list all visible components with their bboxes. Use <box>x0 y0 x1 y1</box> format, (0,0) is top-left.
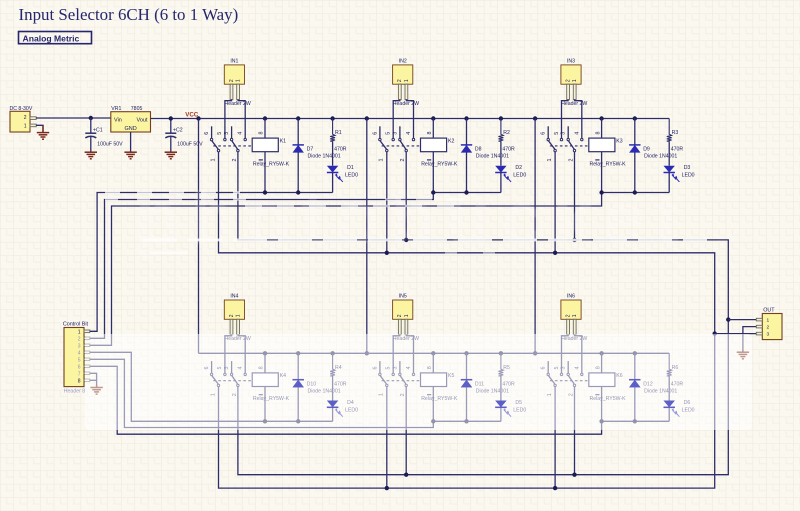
ground under C2 <box>165 151 177 159</box>
svg-text:IN6: IN6 <box>567 294 575 300</box>
wire IN3 pin1 to relay contact <box>562 99 569 138</box>
relay K2 linkage dashed line <box>382 145 421 147</box>
svg-text:2: 2 <box>397 79 403 82</box>
svg-text:Header 2W: Header 2W <box>225 101 251 107</box>
svg-text:GND: GND <box>124 126 136 132</box>
resistor R3 470R <box>667 119 684 153</box>
svg-text:2: 2 <box>397 314 403 317</box>
relay K6 coil Relay_RY5W-K <box>589 353 626 421</box>
svg-text:1: 1 <box>78 329 81 335</box>
capacitor C1 100uF 50V <box>85 118 123 152</box>
svg-text:DC 8-30V: DC 8-30V <box>10 106 33 112</box>
ground under C1 <box>85 151 97 159</box>
resistor R2 470R <box>499 119 516 153</box>
svg-text:2: 2 <box>400 159 406 162</box>
svg-text:Diode 1N4001: Diode 1N4001 <box>476 154 509 160</box>
svg-text:3: 3 <box>767 332 770 338</box>
diode D8 1N4001 <box>461 119 509 193</box>
connector OUT <box>756 308 782 340</box>
svg-text:Diode 1N4001: Diode 1N4001 <box>644 154 677 160</box>
svg-text:100uF 50V: 100uF 50V <box>177 141 203 147</box>
svg-text:1: 1 <box>767 318 770 324</box>
svg-text:5: 5 <box>386 132 392 135</box>
svg-text:3: 3 <box>392 132 398 135</box>
relay K3 contact pins 3-4-2 <box>561 126 583 161</box>
relay K5 linkage dashed line <box>382 380 421 382</box>
wire IN2 pin1 to relay contact <box>393 99 400 138</box>
title text <box>19 5 239 24</box>
svg-text:4: 4 <box>574 132 580 135</box>
svg-text:OUT: OUT <box>763 308 775 314</box>
svg-text:2: 2 <box>229 79 235 82</box>
svg-text:photobucket: photobucket <box>135 177 689 260</box>
svg-text:1: 1 <box>572 79 578 82</box>
svg-text:Control Bit: Control Bit <box>63 322 89 328</box>
svg-text:470R: 470R <box>334 147 347 153</box>
wire IN1 pin2 to relay contact <box>238 99 245 138</box>
wire VCC rail bottom row <box>199 351 670 355</box>
diode D7 1N4001 <box>293 119 341 193</box>
svg-text:IN3: IN3 <box>567 59 575 65</box>
svg-text:8: 8 <box>595 132 601 135</box>
svg-text:1: 1 <box>404 79 410 82</box>
Analog Metric logo box <box>19 32 92 44</box>
relay K5 contact pins 3-4-2 <box>392 361 414 396</box>
diode D10 1N4001 <box>293 353 341 421</box>
svg-text:+C1: +C1 <box>93 128 103 134</box>
svg-text:1: 1 <box>24 123 27 129</box>
svg-text:Relay_RY5W-K: Relay_RY5W-K <box>421 161 458 167</box>
wire DC- to ground <box>36 125 43 132</box>
connector IN3 Header 2W <box>561 59 588 108</box>
svg-text:Analog Metric: Analog Metric <box>23 33 80 43</box>
connector Control Bit Header 8 <box>63 322 90 395</box>
relay K5 contact pins 6-5-1 <box>372 361 394 396</box>
svg-text:3: 3 <box>224 132 230 135</box>
connector IN5 Header 2W <box>393 294 420 343</box>
svg-text:1: 1 <box>210 159 216 162</box>
svg-text:Header 8: Header 8 <box>64 389 85 395</box>
diodes and LEDs bottom row (washed tint) <box>293 380 675 408</box>
svg-text:Relay_RY5W-K: Relay_RY5W-K <box>253 161 290 167</box>
resistor R1 470R <box>330 119 347 153</box>
wire IN1 pin1 to relay contact <box>225 99 232 138</box>
svg-text:1: 1 <box>236 314 242 317</box>
wire control bit 1 to K1 coil rail <box>90 190 333 331</box>
LED D4 LED0 <box>327 376 358 421</box>
svg-text:1: 1 <box>379 159 385 162</box>
svg-text:2: 2 <box>229 314 235 317</box>
svg-text:R1: R1 <box>335 130 342 136</box>
wire control bit 3 to K3 coil rail <box>90 190 669 345</box>
svg-text:6: 6 <box>541 132 547 135</box>
relay K4 contact pins 3-4-2 <box>224 361 246 396</box>
relay K5 coil Relay_RY5W-K <box>421 353 458 421</box>
connector IN2 Header 2W <box>393 59 420 108</box>
svg-text:K3: K3 <box>616 138 622 144</box>
relay K3 linkage dashed line <box>550 145 589 147</box>
svg-text:IN2: IN2 <box>399 59 407 65</box>
svg-text:2: 2 <box>566 314 572 317</box>
svg-text:Diode 1N4001: Diode 1N4001 <box>308 154 341 160</box>
wire IN5 pin1 to relay contact <box>393 334 400 373</box>
svg-text:Input Selector 6CH (6 to 1 Way: Input Selector 6CH (6 to 1 Way) <box>19 5 239 24</box>
LED D3 LED0 <box>664 141 695 192</box>
svg-text:3: 3 <box>78 343 81 349</box>
svg-text:1: 1 <box>572 314 578 317</box>
relay K4 linkage dashed line <box>213 380 252 382</box>
wire VCC drop to bottom row (x3) <box>199 119 538 356</box>
svg-text:D7: D7 <box>307 147 314 153</box>
wire OUT pin2 to ground <box>743 327 756 352</box>
connector IN6 Header 2W <box>561 294 588 343</box>
svg-text:+C2: +C2 <box>173 128 183 134</box>
svg-text:2: 2 <box>566 79 572 82</box>
svg-text:D8: D8 <box>475 147 482 153</box>
capacitor C2 100uF 50V <box>165 118 203 152</box>
LED D2 LED0 <box>495 141 526 192</box>
relay K2 contact pins 3-4-2 <box>392 126 414 161</box>
wire DC+ to regulator input <box>36 116 111 120</box>
svg-text:470R: 470R <box>671 147 684 153</box>
relay K1 contact pins 6-5-1 <box>204 126 226 161</box>
diode D12 1N4001 <box>629 353 677 421</box>
wire control bit 2 to K2 coil rail <box>90 190 501 338</box>
svg-text:470R: 470R <box>502 147 515 153</box>
svg-text:Header 2W: Header 2W <box>561 101 587 107</box>
svg-text:8: 8 <box>427 132 433 135</box>
svg-text:4: 4 <box>238 132 244 135</box>
connector IN1 Header 2W <box>224 59 251 108</box>
svg-text:8: 8 <box>259 132 265 135</box>
resistor R5 470R <box>499 353 516 387</box>
power label VCC <box>185 111 199 118</box>
svg-text:VR1: VR1 <box>111 106 121 112</box>
svg-text:Vin: Vin <box>114 118 122 124</box>
wire IN4 pin1 to relay contact <box>225 334 232 373</box>
svg-text:IN5: IN5 <box>399 294 407 300</box>
svg-text:7805: 7805 <box>131 106 143 112</box>
svg-text:Header 2W: Header 2W <box>393 101 419 107</box>
relay K6 linkage dashed line <box>550 380 589 382</box>
svg-text:1: 1 <box>547 159 553 162</box>
relay K1 coil Relay_RY5W-K <box>252 119 289 193</box>
relay K4 coil Relay_RY5W-K <box>252 353 289 421</box>
wire VR1 GND pin <box>130 132 132 152</box>
relay K3 contact pins 6-5-1 <box>541 126 563 161</box>
relay K4 contact pins 6-5-1 <box>204 361 226 396</box>
svg-text:2: 2 <box>232 159 238 162</box>
svg-text:Relay_RY5W-K: Relay_RY5W-K <box>590 161 627 167</box>
relay K2 contact pins 6-5-1 <box>372 126 394 161</box>
svg-text:Vout: Vout <box>136 118 147 124</box>
ground at DC input <box>37 125 49 139</box>
wire control bit 6 to K6 coil rail <box>90 366 669 434</box>
svg-text:100uF 50V: 100uF 50V <box>97 141 123 147</box>
svg-text:K1: K1 <box>280 138 286 144</box>
watermark wire washes <box>105 193 707 253</box>
wire audio bus B (relay commons 1) <box>219 152 717 491</box>
ground at control header <box>90 385 102 394</box>
wire IN5 pin2 to relay contact <box>406 334 413 373</box>
svg-text:2: 2 <box>78 336 81 342</box>
wire IN3 pin2 to relay contact <box>575 99 582 138</box>
svg-text:3: 3 <box>561 132 567 135</box>
LED D5 LED0 <box>495 376 526 421</box>
svg-text:R3: R3 <box>672 130 679 136</box>
wire OUT pin1 <box>728 319 756 321</box>
LED D6 LED0 <box>664 376 695 421</box>
svg-text:6: 6 <box>78 364 81 370</box>
svg-text:1: 1 <box>236 79 242 82</box>
relay K1 contact pins 3-4-2 <box>224 126 246 161</box>
watermark band <box>85 334 752 430</box>
wire IN2 pin2 to relay contact <box>406 99 413 138</box>
regulator VR1 7805 <box>111 106 151 132</box>
svg-text:IN1: IN1 <box>230 59 238 65</box>
svg-text:6: 6 <box>204 132 210 135</box>
wire control bit 7 and 8 to ground <box>90 373 97 387</box>
relay K2 coil Relay_RY5W-K <box>421 119 458 193</box>
svg-text:D9: D9 <box>643 147 650 153</box>
wire VCC rail top row <box>151 116 670 120</box>
svg-text:5: 5 <box>554 132 560 135</box>
ground at OUT connector <box>737 350 749 359</box>
svg-text:8: 8 <box>78 378 81 384</box>
svg-text:7: 7 <box>78 371 81 377</box>
svg-text:2: 2 <box>24 115 27 121</box>
wire control bit 4 to K4 coil rail <box>90 352 333 423</box>
svg-text:6: 6 <box>372 132 378 135</box>
ground under VR1 <box>124 151 136 159</box>
svg-text:4: 4 <box>406 132 412 135</box>
svg-text:D2: D2 <box>515 165 522 171</box>
svg-text:R2: R2 <box>503 130 510 136</box>
wire audio bus A (relay commons 2) <box>238 152 731 477</box>
diode D11 1N4001 <box>461 353 509 421</box>
wire IN6 pin1 to relay contact <box>562 334 569 373</box>
watermark ghost text <box>135 177 689 260</box>
diode D9 1N4001 <box>629 119 677 193</box>
LED D1 LED0 <box>327 141 358 192</box>
wire IN6 pin2 to relay contact <box>575 334 582 373</box>
svg-text:4: 4 <box>78 350 81 356</box>
connector DC 8-30V input <box>10 106 37 132</box>
connector IN4 Header 2W <box>224 294 251 343</box>
svg-text:2: 2 <box>569 159 575 162</box>
wire IN4 pin2 to relay contact <box>238 334 245 373</box>
svg-text:1: 1 <box>404 314 410 317</box>
wire OUT pin3 <box>715 333 757 335</box>
relay K3 coil Relay_RY5W-K <box>589 119 626 193</box>
relay K6 contact pins 6-5-1 <box>541 361 563 396</box>
svg-text:D1: D1 <box>347 165 354 171</box>
resistor R6 470R <box>667 353 684 387</box>
wire control bit 5 to K5 coil rail <box>90 359 501 427</box>
svg-text:5: 5 <box>78 357 81 363</box>
svg-text:D3: D3 <box>684 165 691 171</box>
relay K6 contact pins 3-4-2 <box>561 361 583 396</box>
resistor R4 470R <box>330 353 347 387</box>
relay K1 linkage dashed line <box>213 145 252 147</box>
svg-text:5: 5 <box>217 132 223 135</box>
svg-text:2: 2 <box>767 325 770 331</box>
svg-text:K2: K2 <box>448 138 454 144</box>
svg-text:IN4: IN4 <box>230 294 238 300</box>
